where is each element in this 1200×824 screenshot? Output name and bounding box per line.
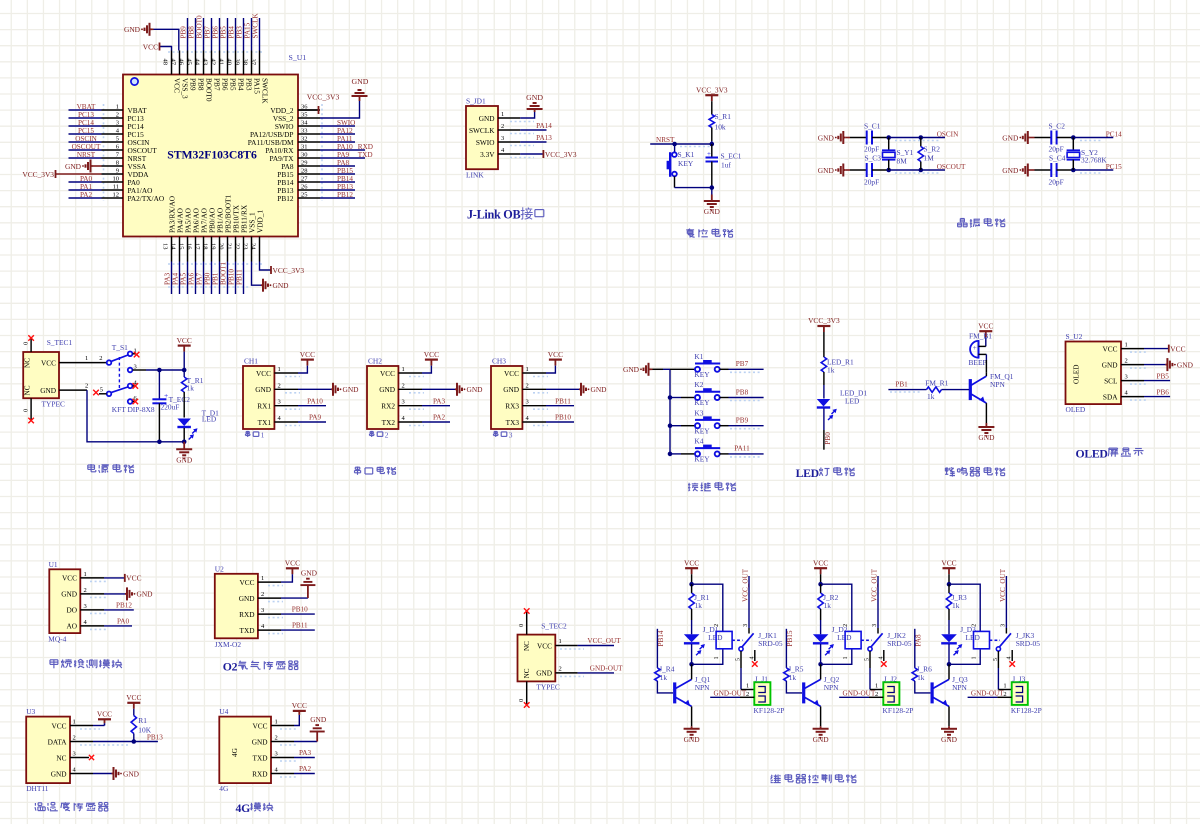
node coil bottom junction ch3 — [947, 662, 952, 667]
JD1 pin 3 SWIO — [498, 141, 520, 143]
svg-text:GND: GND — [1002, 133, 1019, 142]
net PB12 — [104, 609, 134, 611]
svg-text:VCC_OUT: VCC_OUT — [587, 637, 621, 645]
resistor J_R3 1k — [948, 584, 950, 593]
MQ-4 pin 4 AO — [80, 625, 104, 627]
U1 pin 18 PB0/AO — [211, 237, 213, 262]
U1 pin 16 PA6/AO — [195, 237, 197, 262]
svg-text:S_EC1: S_EC1 — [721, 152, 742, 161]
svg-text:SCL: SCL — [1104, 376, 1118, 385]
svg-text:2: 2 — [85, 383, 88, 390]
svg-text:J_J1: J_J1 — [755, 674, 768, 683]
svg-text:0: 0 — [518, 624, 525, 627]
section title crystal circuit — [960, 218, 964, 220]
U1 pin 46 PB9 — [187, 51, 189, 75]
node rail junction ch3 — [947, 582, 952, 587]
T_S1 pin1 nc — [133, 353, 137, 355]
capacitor T_EC2 220uF — [158, 370, 160, 399]
svg-text:PA8: PA8 — [337, 159, 350, 167]
svg-text:2: 2 — [278, 382, 281, 389]
svg-text:VCC: VCC — [285, 559, 300, 568]
svg-text:LED: LED — [202, 415, 217, 424]
ground at JD1 pin 1 — [520, 112, 534, 118]
svg-text:S_TEC2: S_TEC2 — [541, 621, 567, 630]
svg-text:VCC: VCC — [252, 721, 267, 730]
U1 pin 25 PB12 — [298, 197, 320, 199]
CH1 pin 4 TX1 — [274, 421, 298, 423]
svg-text:PC14: PC14 — [1106, 130, 1122, 138]
svg-text:KEY: KEY — [678, 159, 694, 168]
svg-text:BOOT0: BOOT0 — [204, 78, 213, 102]
svg-text:31: 31 — [301, 144, 308, 151]
svg-text:PA13: PA13 — [536, 134, 552, 142]
relay pin5 wire to J_J1 ch1 — [740, 651, 742, 668]
svg-text:PB6: PB6 — [220, 78, 229, 91]
net PB6 — [1144, 396, 1170, 398]
svg-text:U3: U3 — [26, 707, 35, 716]
net label PA14 — [520, 129, 546, 131]
part U1 MQ-4 body — [49, 569, 80, 633]
svg-text:TX1: TX1 — [258, 418, 272, 427]
U1 pin 40 PB4 — [235, 51, 237, 75]
svg-text:PA9: PA9 — [309, 414, 322, 422]
svg-text:PB6: PB6 — [212, 26, 220, 39]
svg-text:PB10: PB10 — [555, 414, 571, 422]
svg-text:14: 14 — [170, 243, 177, 250]
section title buzzer circuit — [945, 467, 948, 469]
relay pin3 net VCC_OUT ch3 — [1005, 628, 1007, 634]
svg-text:24: 24 — [250, 243, 257, 250]
svg-text:4G: 4G — [236, 802, 251, 815]
resistor J_R5 1k base ch2 — [785, 629, 787, 668]
svg-text:38: 38 — [242, 59, 249, 66]
DHT11 pin3 NC — [70, 757, 89, 759]
svg-text:GND: GND — [310, 715, 327, 724]
svg-text:SRD-05: SRD-05 — [758, 639, 783, 648]
svg-text:NC: NC — [24, 385, 32, 395]
svg-text:VCC: VCC — [941, 558, 956, 567]
svg-text:CH2: CH2 — [368, 357, 382, 366]
svg-text:42: 42 — [210, 59, 217, 66]
U1 pin 44 BOOT0 — [203, 51, 205, 75]
svg-text:+: + — [707, 150, 711, 158]
crystal S_Y2 32.768K — [1072, 138, 1074, 151]
svg-text:GND: GND — [176, 456, 193, 465]
svg-text:1M: 1M — [924, 153, 935, 162]
svg-text:+: + — [164, 391, 168, 400]
ground at U1 pin 35 VSS_2 — [320, 101, 360, 118]
LED J_D3 — [941, 634, 957, 642]
ground crystal2 row1 — [1028, 137, 1030, 139]
svg-text:GND: GND — [1002, 166, 1019, 175]
connector J_J3 KF128-2P — [1012, 682, 1028, 705]
svg-text:SRD-05: SRD-05 — [1016, 639, 1041, 648]
svg-text:2: 2 — [559, 665, 562, 672]
svg-text:VCC: VCC — [177, 336, 192, 345]
svg-text:JXM-O2: JXM-O2 — [215, 640, 242, 649]
svg-text:VCC_3V3: VCC_3V3 — [22, 170, 54, 179]
svg-text:S_JD1: S_JD1 — [466, 97, 486, 106]
svg-text:DO: DO — [66, 606, 77, 615]
wire NRST — [650, 143, 712, 145]
svg-text:220uF: 220uF — [161, 402, 180, 411]
svg-text:O2: O2 — [223, 661, 238, 674]
svg-text:20: 20 — [218, 243, 225, 250]
svg-text:30: 30 — [301, 152, 308, 159]
svg-text:20pF: 20pF — [1049, 178, 1064, 187]
svg-text:33: 33 — [301, 128, 308, 135]
svg-text:NPN: NPN — [990, 380, 1005, 389]
wire to PC15 — [1073, 169, 1113, 171]
svg-text:GND: GND — [51, 769, 67, 778]
LED J_D2 — [813, 634, 829, 642]
svg-text:GND: GND — [813, 735, 830, 744]
svg-text:U1: U1 — [49, 560, 58, 569]
MQ-4 pin 1 VCC — [80, 577, 104, 579]
net PA3 — [422, 405, 450, 407]
power VCC_3V3 at U1 pin 36 — [298, 109, 319, 111]
svg-text:40: 40 — [226, 59, 233, 66]
svg-text:PA0: PA0 — [117, 617, 130, 625]
U1 pin 48 VCC — [171, 51, 173, 75]
svg-text:2: 2 — [84, 587, 87, 594]
svg-text:15: 15 — [178, 243, 185, 250]
transistor J_Q1 NPN — [673, 682, 676, 703]
svg-text:DHT11: DHT11 — [26, 784, 49, 793]
svg-text:NPN: NPN — [952, 683, 967, 692]
svg-text:VBAT: VBAT — [77, 103, 96, 111]
svg-text:VCC: VCC — [292, 701, 307, 710]
svg-text:PB3: PB3 — [236, 26, 244, 39]
svg-text:PB4: PB4 — [228, 26, 236, 39]
U1 pin 35 VSS_2 — [298, 117, 320, 119]
svg-text:2: 2 — [402, 382, 405, 389]
svg-text:3: 3 — [116, 120, 119, 127]
svg-text:3: 3 — [261, 607, 264, 614]
relay pin4 nc ch2 — [883, 650, 885, 661]
TEC1 bottom shell pin — [30, 398, 32, 420]
svg-text:5: 5 — [736, 658, 742, 661]
svg-text:PA10: PA10 — [337, 143, 353, 151]
svg-text:2: 2 — [73, 735, 76, 742]
svg-text:KF128-2P: KF128-2P — [754, 706, 785, 715]
svg-text:1: 1 — [73, 719, 76, 726]
svg-text:39: 39 — [234, 59, 241, 66]
svg-text:2: 2 — [526, 382, 529, 389]
relay contact lever ch3 — [990, 639, 1001, 641]
svg-text:VCC: VCC — [126, 574, 141, 583]
svg-text:RX3: RX3 — [505, 402, 519, 411]
svg-text:BEEP: BEEP — [969, 358, 987, 367]
svg-text:1uf: 1uf — [721, 161, 731, 170]
ground reset — [711, 188, 713, 195]
U1 pin 39 PB3 — [243, 51, 245, 75]
svg-text:GND: GND — [623, 365, 640, 374]
node junction row1 — [886, 135, 891, 140]
svg-text:1k: 1k — [952, 601, 960, 610]
svg-text:VCC: VCC — [380, 369, 395, 378]
svg-text:AO: AO — [66, 622, 77, 631]
svg-text:PA3: PA3 — [299, 749, 312, 757]
svg-text:PB14: PB14 — [337, 175, 353, 183]
svg-text:4: 4 — [1007, 657, 1013, 660]
svg-text:1: 1 — [261, 431, 265, 440]
svg-text:S_C4: S_C4 — [1049, 154, 1066, 163]
svg-text:PA2/TX/AO: PA2/TX/AO — [128, 194, 165, 203]
key S_K1 — [674, 144, 676, 152]
4G pin 4 RXD — [271, 773, 294, 775]
svg-text:2: 2 — [116, 112, 119, 119]
svg-text:BOOT0: BOOT0 — [196, 15, 204, 39]
svg-text:3.3V: 3.3V — [480, 150, 495, 159]
svg-text:1: 1 — [85, 355, 88, 362]
bottom rail to GND — [87, 390, 184, 442]
node rail junction ch1 — [689, 582, 694, 587]
section title power circuit — [88, 464, 95, 466]
svg-text:1: 1 — [501, 111, 504, 118]
svg-text:1: 1 — [1125, 342, 1128, 349]
section title temperature humidity sensor — [34, 803, 36, 806]
CH3 pin 4 TX3 — [522, 421, 546, 423]
svg-text:PA0: PA0 — [80, 175, 93, 183]
svg-text:GND: GND — [273, 281, 290, 290]
svg-text:VCC_OUT: VCC_OUT — [871, 568, 879, 602]
net PB10 — [281, 613, 315, 615]
net PB8 — [720, 397, 729, 399]
svg-text:8: 8 — [116, 160, 119, 167]
svg-text:12: 12 — [113, 192, 120, 199]
MCU U1 STM32F103C8T6 body — [123, 75, 298, 237]
JXM-O2 pin 4 TXD — [258, 629, 281, 631]
JD1 pin 4 3.3V — [498, 153, 520, 155]
svg-text:PA15: PA15 — [244, 22, 252, 38]
svg-text:OLED: OLED — [1066, 405, 1086, 414]
svg-text:VCC: VCC — [1102, 344, 1117, 353]
capacitor crystal2 row2 — [1050, 163, 1052, 177]
svg-text:DATA: DATA — [48, 737, 68, 746]
power VCC_3V3 to U1 pin 9 VDDA — [55, 170, 57, 178]
U1 pin 34 SWIO — [298, 125, 320, 127]
wire coil bottom ch3 — [949, 649, 980, 665]
svg-text:NPN: NPN — [695, 683, 710, 692]
JXM-O2 pin 1 VCC — [258, 581, 281, 583]
svg-text:TXD: TXD — [240, 626, 255, 635]
svg-text:3: 3 — [402, 399, 405, 406]
U1 pin 11 PA1/AO — [102, 189, 124, 191]
svg-text:KEY: KEY — [694, 426, 710, 435]
svg-text:NC: NC — [24, 358, 32, 368]
section title relay control circuit — [770, 775, 773, 776]
svg-text:SRD-05: SRD-05 — [887, 639, 912, 648]
LED LED_D1 — [817, 399, 830, 407]
svg-text:S_U2: S_U2 — [1066, 332, 1083, 341]
U1 pin 3 PC14 — [102, 125, 124, 127]
U1 pin 32 PA11/USB/DM — [298, 141, 320, 143]
CH1 pin 3 RX1 — [274, 405, 298, 407]
node reset-gnd junction — [710, 185, 715, 190]
bottom pin row dashes — [168, 263, 262, 265]
U2 OLED pin 1 VCC — [1121, 348, 1144, 350]
svg-text:PB12: PB12 — [337, 191, 353, 199]
capacitor S_C1 20pF — [866, 131, 868, 145]
svg-text:PB1: PB1 — [895, 381, 908, 389]
U1 pin 33 PA12/USB/DP — [298, 133, 320, 135]
svg-text:GND: GND — [818, 166, 835, 175]
svg-text:3: 3 — [509, 431, 513, 440]
JD1 pin 2 SWCLK — [498, 129, 520, 131]
svg-text:GND-OUT: GND-OUT — [590, 665, 623, 673]
svg-text:GND-OUT: GND-OUT — [971, 689, 1004, 697]
capacitor S_EC1 1uf — [711, 144, 713, 158]
svg-text:NC: NC — [56, 753, 66, 762]
svg-text:S_C1: S_C1 — [864, 121, 881, 130]
svg-text:43: 43 — [202, 59, 209, 66]
svg-text:S_R1: S_R1 — [715, 112, 732, 121]
svg-text:22: 22 — [234, 243, 241, 250]
ground at CH2 pin2 — [422, 388, 455, 390]
connector J_J1 KF128-2P — [754, 682, 770, 705]
svg-text:NPN: NPN — [824, 683, 839, 692]
svg-text:4: 4 — [878, 657, 884, 660]
svg-text:4: 4 — [749, 657, 755, 660]
U1 pin 10 PA0 — [102, 181, 124, 183]
svg-text:VCC: VCC — [239, 578, 254, 587]
svg-text:37: 37 — [250, 59, 257, 66]
U1 pin 7 NRST — [102, 157, 124, 159]
key K4 — [670, 453, 681, 455]
U1 pin 6 OSCOUT — [102, 149, 124, 151]
svg-text:GND: GND — [941, 735, 958, 744]
svg-text:GND: GND — [591, 385, 608, 394]
wire rail to relay coil ch2 — [821, 584, 852, 631]
relay pin3 net VCC_OUT ch1 — [748, 628, 750, 634]
svg-text:PC14: PC14 — [78, 119, 94, 127]
svg-text:1: 1 — [275, 719, 278, 726]
svg-text:1k: 1k — [824, 601, 832, 610]
net PA3 — [294, 757, 315, 759]
relay pin3 net VCC_OUT ch2 — [877, 628, 879, 634]
svg-text:PB5: PB5 — [228, 78, 237, 91]
power VCC_3V3 at JD1 pin 4 — [520, 153, 543, 155]
U1 pin 20 PB2/BOOT1 — [227, 237, 229, 262]
ground crystal2 row2 — [1028, 169, 1030, 171]
svg-text:STM32F103C8T6: STM32F103C8T6 — [167, 148, 257, 161]
svg-text:PB7: PB7 — [204, 26, 212, 39]
svg-text:21: 21 — [226, 243, 233, 250]
svg-text:1k: 1k — [660, 673, 668, 682]
DATA wire net PB13 — [70, 741, 93, 743]
svg-text:TXD: TXD — [253, 753, 268, 762]
ground at CH1 pin2 — [298, 388, 331, 390]
svg-text:GND: GND — [704, 207, 721, 216]
node coil bottom junction ch1 — [689, 662, 694, 667]
svg-text:SWCLK: SWCLK — [469, 126, 495, 135]
svg-text:VCC: VCC — [813, 558, 828, 567]
svg-text:PB13: PB13 — [147, 733, 163, 741]
svg-text:1: 1 — [278, 366, 281, 373]
resistor LED_R1 1k — [821, 357, 826, 372]
svg-text:1: 1 — [559, 638, 562, 645]
svg-text:NRST: NRST — [77, 151, 96, 159]
svg-text:PA2: PA2 — [80, 191, 93, 199]
svg-text:1k: 1k — [695, 601, 703, 610]
svg-text:VCC_3V3: VCC_3V3 — [545, 150, 577, 159]
relay contact lever ch1 — [732, 639, 743, 641]
svg-text:GND: GND — [526, 93, 543, 102]
net PA10 — [298, 405, 326, 407]
svg-text:LED: LED — [796, 467, 819, 480]
U2 OLED pin 3 SCL — [1121, 380, 1144, 382]
svg-text:K2: K2 — [694, 380, 703, 389]
net PB11 — [546, 405, 574, 407]
svg-text:RX2: RX2 — [381, 402, 395, 411]
svg-text:1: 1 — [402, 366, 405, 373]
U1 pin 13 PA3/RX/AO — [171, 237, 173, 262]
wire T_S1 pin3 to VCC rail — [133, 369, 147, 371]
U1 pin 27 PB14 — [298, 181, 320, 183]
svg-text:34: 34 — [301, 120, 308, 127]
ground keys — [649, 368, 651, 370]
svg-text:VDD_1: VDD_1 — [255, 210, 264, 233]
svg-text:VCC_OUT: VCC_OUT — [742, 568, 750, 602]
svg-text:KEY: KEY — [694, 398, 710, 407]
svg-text:GND: GND — [978, 433, 995, 442]
svg-text:1k: 1k — [927, 392, 935, 401]
wire rail to relay coil ch1 — [692, 584, 723, 631]
svg-text:PA5: PA5 — [180, 272, 188, 285]
svg-text:PB6: PB6 — [1157, 388, 1170, 396]
svg-text:VCC: VCC — [143, 42, 158, 51]
LED T_D1 — [177, 419, 191, 427]
svg-text:VCC: VCC — [684, 558, 699, 567]
svg-text:BOOT1: BOOT1 — [220, 261, 228, 285]
svg-text:PB9: PB9 — [188, 78, 197, 91]
svg-text:9: 9 — [116, 168, 119, 175]
svg-text:OLED: OLED — [1076, 448, 1108, 461]
svg-text:PB1: PB1 — [212, 272, 220, 285]
svg-text:PB11: PB11 — [236, 269, 244, 285]
node junction row2 — [886, 168, 891, 173]
svg-text:PA11: PA11 — [337, 135, 353, 143]
net PB10 — [546, 421, 574, 423]
svg-text:VSS_3: VSS_3 — [180, 78, 189, 99]
svg-text:PB15: PB15 — [337, 167, 353, 175]
svg-text:S_TEC1: S_TEC1 — [47, 338, 73, 347]
svg-text:VCC_3V3: VCC_3V3 — [696, 85, 728, 94]
4G pin 1 VCC — [271, 725, 294, 727]
svg-text:PB8: PB8 — [196, 78, 205, 91]
svg-text:VCC: VCC — [424, 350, 439, 359]
svg-text:NC: NC — [523, 668, 531, 678]
CH3 pin 1 VCC — [522, 372, 546, 374]
transistor J_Q2 NPN — [802, 682, 805, 703]
svg-text:PC15: PC15 — [78, 127, 94, 135]
svg-text:0: 0 — [23, 409, 30, 412]
svg-text:13: 13 — [162, 243, 169, 250]
node junction2 row2 — [1071, 168, 1076, 173]
svg-text:GND: GND — [818, 133, 835, 142]
svg-text:1: 1 — [746, 682, 749, 689]
svg-text:GND: GND — [137, 590, 154, 599]
power VCC at OLED pin1 — [1144, 348, 1169, 350]
U1 pin 8 VSSA — [102, 165, 124, 167]
svg-text:PB15: PB15 — [786, 630, 794, 646]
resistor T_R1 1k — [183, 370, 185, 377]
U1 pin 26 PB13 — [298, 189, 320, 191]
key K1 — [670, 368, 695, 370]
svg-text:PA1: PA1 — [80, 183, 93, 191]
svg-text:41: 41 — [218, 59, 225, 66]
